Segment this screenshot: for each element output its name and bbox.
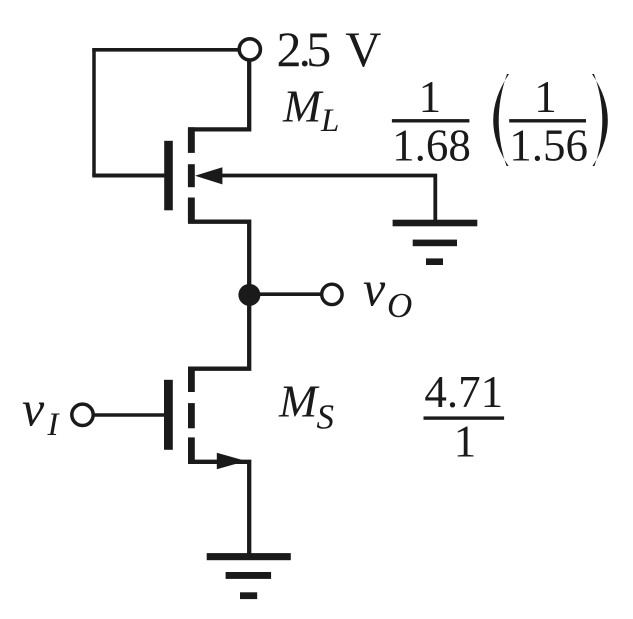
svg-text:v: v [22,380,45,436]
svg-text:1.68: 1.68 [392,120,471,170]
wire source lead of MS down to ground [188,462,249,554]
wire body of ML to ground [221,176,435,221]
transistor MS channel middle dash [188,403,195,428]
transistor ML gate bar [164,141,173,211]
ground bottom middle bar [226,572,272,579]
svg-text:1: 1 [454,417,477,467]
node output dot [238,284,260,306]
wire drain lead of ML [188,61,249,129]
fraction 4.71/1 bar [424,416,505,419]
svg-text:M: M [278,376,320,427]
svg-text:2.5V: 2.5V [277,21,382,77]
svg-text:S: S [317,398,335,437]
wire output node to vO terminal [250,292,321,296]
terminal vI [72,404,93,425]
wire gate lead of MS [94,413,164,417]
transistor MS channel bottom dash [188,437,195,462]
label right parenthesis [592,74,608,166]
wire drain lead of MS from output node [188,295,249,369]
wire source lead of ML down to output node [188,222,249,290]
svg-text:L: L [320,103,339,139]
terminal 2.5V [239,39,260,60]
transistor ML channel middle dash [188,164,195,187]
transistor MS gate bar [164,380,173,450]
ground right middle bar [413,240,457,247]
fraction 1/1.56 bar [509,119,586,122]
svg-text:1: 1 [534,72,557,122]
svg-text:1: 1 [419,72,442,122]
ground right top bar [393,220,478,227]
transistor ML channel bottom dash [188,198,195,223]
ground bottom top bar [207,553,291,560]
svg-text:1.56: 1.56 [509,120,588,170]
wire top horizontal from gate loop to 2.5V terminal [92,48,238,52]
svg-text:4.71: 4.71 [424,367,503,417]
transistor ML body arrow [195,167,222,184]
transistor ML channel top dash [188,127,195,153]
transistor MS channel top dash [188,367,195,392]
ground right bottom bar [426,258,443,265]
fraction 1/1.68 bar [392,119,470,122]
svg-text:O: O [387,286,412,325]
ground bottom bottom bar [240,592,257,599]
wire left vertical gate loop [92,48,96,176]
svg-text:v: v [363,260,386,316]
svg-text:M: M [282,80,324,131]
svg-text:I: I [47,407,61,443]
terminal vO [322,284,342,304]
label left parenthesis [493,74,509,166]
wire gate lead of ML [92,174,164,178]
transistor MS source arrow [217,453,246,469]
